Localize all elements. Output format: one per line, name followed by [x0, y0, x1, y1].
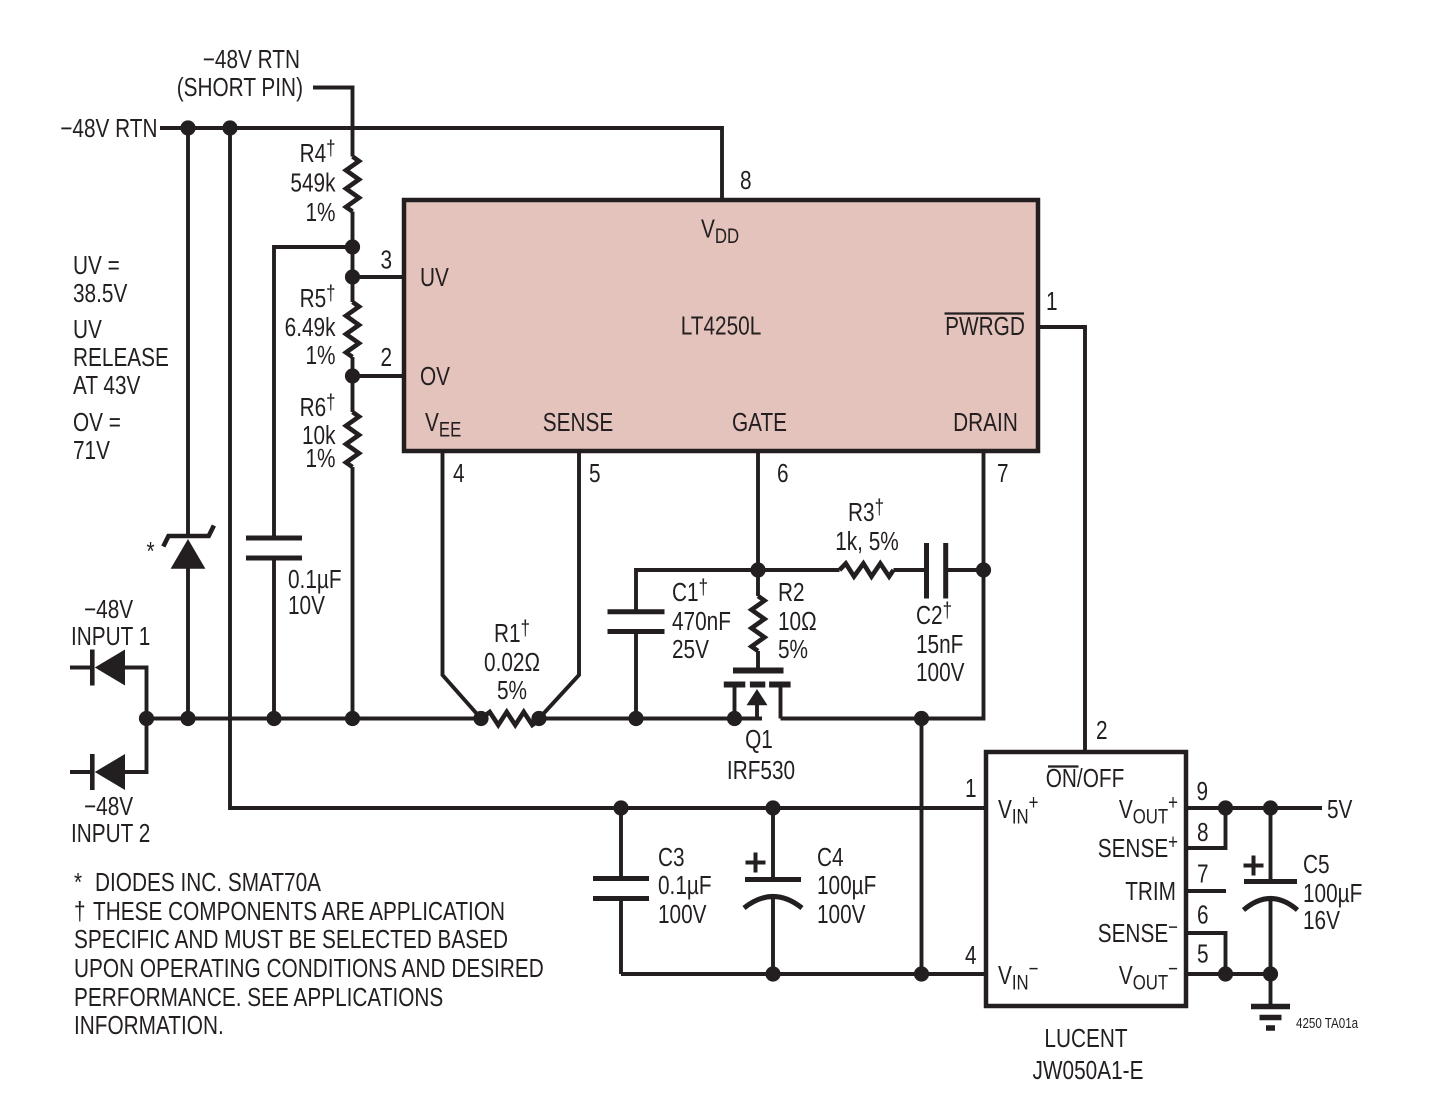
wire node to 0.1uF cap [274, 247, 353, 538]
svg-text:R2: R2 [778, 578, 805, 607]
svg-text:549k: 549k [290, 168, 335, 197]
capacitor C5 polarized [1244, 808, 1298, 974]
svg-text:5%: 5% [778, 635, 808, 664]
capacitor C4 value labels [817, 843, 876, 929]
resistor R4 value labels [290, 137, 335, 226]
resistor R1 sense [481, 712, 541, 725]
resistor R5 value labels [285, 282, 336, 369]
svg-text:PWRGD: PWRGD [945, 312, 1025, 341]
svg-text:3: 3 [381, 245, 393, 274]
resistor R6 [346, 412, 359, 467]
wire R4 bottom to node 3 [351, 212, 355, 278]
wire -48V RTN to VIN+ [230, 128, 986, 808]
wire bus R1 to Q1 source [539, 717, 762, 721]
svg-text:470nF: 470nF [672, 607, 731, 636]
module U2 Lucent body [986, 752, 1186, 1006]
IC U1 LT4250L body [404, 200, 1038, 451]
svg-text:71V: 71V [73, 436, 110, 465]
svg-text:SENSE−: SENSE− [1098, 916, 1178, 947]
svg-text:TRIM: TRIM [1125, 877, 1176, 906]
wire R5 to OV [351, 357, 355, 412]
svg-text:JW050A1-E: JW050A1-E [1033, 1056, 1144, 1085]
junction dot VIN+/C4 [765, 800, 780, 815]
transistor Q1 body arrow [747, 689, 768, 719]
footnote text block [74, 868, 544, 1040]
capacitor C5 plus sign [1244, 856, 1264, 876]
capacitor 0.1uF labels [288, 565, 342, 620]
junction dot VIN-/C4 [765, 966, 780, 981]
junction dot rail/input line [222, 120, 237, 135]
resistor R6 value labels [300, 391, 336, 472]
svg-text:SENSE+: SENSE+ [1098, 831, 1178, 862]
svg-text:5V: 5V [1327, 795, 1353, 824]
wire VOUT+ to 5V [1186, 806, 1322, 810]
junction dot input diodes [139, 711, 154, 726]
wire GATE pin 6 [756, 451, 760, 596]
wire R2 to Q1 gate [756, 651, 760, 668]
svg-text:100V: 100V [817, 900, 866, 929]
wire VIN- line [621, 972, 986, 976]
capacitor C2 value labels [916, 599, 965, 686]
svg-text:DRAIN: DRAIN [953, 408, 1018, 437]
zener diode D3 cathode bar [163, 526, 214, 547]
svg-text:PERFORMANCE. SEE APPLICATIONS: PERFORMANCE. SEE APPLICATIONS [74, 983, 443, 1012]
capacitor C5 value labels [1303, 850, 1362, 935]
junction dot bus/VIN- drop [914, 711, 929, 726]
capacitor C2 plates [927, 543, 946, 599]
junction dot VIN-/drain drop [914, 966, 929, 981]
svg-text:1: 1 [965, 774, 977, 803]
svg-text:7: 7 [997, 459, 1009, 488]
svg-text:100V: 100V [658, 900, 707, 929]
diode D1 input 1 [70, 650, 147, 719]
svg-text:9: 9 [1197, 777, 1209, 806]
svg-text:IRF530: IRF530 [727, 756, 795, 785]
transistor Q1 channel bars [724, 682, 791, 688]
junction dot OV node [345, 368, 360, 383]
wire OV pin 2 [353, 374, 405, 378]
junction dot R1 left [473, 711, 488, 726]
svg-text:UV: UV [73, 315, 102, 344]
svg-text:ON/OFF: ON/OFF [1046, 764, 1125, 793]
svg-text:−48V RTN: −48V RTN [203, 45, 300, 74]
net label -48V INPUT 2 [71, 792, 150, 848]
svg-text:GATE: GATE [732, 408, 787, 437]
wire -48V bus left segment [147, 717, 482, 721]
svg-text:†: † [74, 897, 86, 926]
capacitor C1 value labels [672, 576, 731, 663]
svg-text:UV =: UV = [73, 251, 120, 280]
resistor R1 value labels [484, 617, 540, 704]
svg-text:INPUT 2: INPUT 2 [71, 819, 150, 848]
wire -48V RTN rail to pin 8 [160, 128, 722, 200]
junction dot VIN+/C3 [613, 800, 628, 815]
note text UV OV thresholds [73, 251, 169, 465]
junction dot bus/zener [180, 711, 195, 726]
svg-text:5: 5 [1197, 939, 1209, 968]
svg-text:AT 43V: AT 43V [73, 371, 141, 400]
svg-text:4: 4 [453, 459, 465, 488]
zener diode D3 triangle [171, 539, 206, 569]
svg-text:LUCENT: LUCENT [1044, 1024, 1127, 1053]
wire drain bus down to VIN- [920, 719, 924, 975]
svg-text:Q1: Q1 [745, 725, 773, 754]
capacitor C3 value labels [658, 843, 712, 929]
svg-text:1%: 1% [305, 444, 335, 473]
svg-text:6.49k: 6.49k [285, 313, 336, 342]
module name labels [1033, 1024, 1144, 1085]
svg-text:6: 6 [777, 459, 789, 488]
module pin label ON/OFF with overline [1046, 764, 1125, 793]
transistor Q1 drain stub [779, 686, 783, 719]
svg-text:C3: C3 [658, 843, 685, 872]
svg-text:(SHORT PIN): (SHORT PIN) [177, 73, 303, 102]
svg-text:OV: OV [420, 362, 450, 391]
svg-text:8: 8 [740, 166, 752, 195]
wire short pin to R4 [313, 88, 353, 157]
svg-text:−48V: −48V [84, 792, 133, 821]
capacitor C3 [593, 808, 649, 974]
junction dot R4/R5 cap node [345, 239, 360, 254]
svg-text:0.02Ω: 0.02Ω [484, 648, 540, 677]
svg-text:0.1µF: 0.1µF [658, 871, 712, 900]
svg-text:38.5V: 38.5V [73, 279, 128, 308]
diode D2 input 2 [70, 719, 147, 791]
junction dot Q1 source [727, 711, 742, 726]
junction dot VOUT+/C5 [1263, 800, 1278, 815]
svg-text:INFORMATION.: INFORMATION. [74, 1011, 224, 1040]
wire 0.1uF to bus [272, 558, 276, 719]
svg-text:2: 2 [1096, 716, 1108, 745]
svg-text:6: 6 [1197, 900, 1209, 929]
svg-text:100µF: 100µF [817, 871, 876, 900]
svg-text:100µF: 100µF [1303, 879, 1362, 908]
junction dot rail/zener [180, 120, 195, 135]
svg-text:5: 5 [589, 459, 601, 488]
svg-text:RELEASE: RELEASE [73, 343, 169, 372]
junction dot drain/C2 [976, 562, 991, 577]
svg-text:0.1µF: 0.1µF [288, 565, 342, 594]
net label -48V RTN (SHORT PIN) [177, 45, 303, 102]
junction dot SENSE+/VOUT+ [1218, 800, 1233, 815]
capacitor C4 polarized [744, 808, 802, 974]
wire SENSE pin 5 [539, 451, 579, 719]
svg-text:4250 TA01a: 4250 TA01a [1296, 1015, 1359, 1032]
resistor R4 [346, 157, 359, 212]
svg-text:−48V RTN: −48V RTN [60, 114, 157, 143]
resistor R2 [752, 596, 765, 651]
transistor Q1 labels [727, 725, 795, 785]
svg-text:1: 1 [1046, 287, 1058, 316]
svg-text:THESE COMPONENTS ARE APPLICATI: THESE COMPONENTS ARE APPLICATION [93, 897, 505, 926]
svg-text:2: 2 [381, 343, 393, 372]
junction dot bus/0.1uF [266, 711, 281, 726]
ground symbol [1251, 974, 1290, 1028]
wire C2 to drain node [948, 568, 984, 572]
svg-text:C5: C5 [1303, 850, 1330, 879]
svg-text:4: 4 [965, 941, 977, 970]
wire TRIM stub [1186, 889, 1226, 893]
svg-text:100V: 100V [916, 658, 965, 687]
svg-text:SPECIFIC AND MUST BE SELECTED: SPECIFIC AND MUST BE SELECTED BASED [74, 925, 508, 954]
wire UV pin 3 [353, 275, 405, 279]
pin label PWRGD with overline [945, 312, 1025, 341]
svg-text:UPON OPERATING CONDITIONS AND: UPON OPERATING CONDITIONS AND DESIRED [74, 954, 544, 983]
wire SENSE+ jog to VOUT+ [1186, 808, 1226, 848]
wire C1 to bus [634, 632, 638, 719]
svg-text:8: 8 [1197, 818, 1209, 847]
wire R6 to bus [351, 467, 355, 719]
net label -48V INPUT 1 [71, 595, 150, 651]
wire VOUT- line [1186, 972, 1271, 976]
wire SENSE- jog to VOUT- [1186, 933, 1226, 974]
junction dot VOUT-/C5 [1263, 966, 1278, 981]
svg-text:10V: 10V [288, 591, 325, 620]
junction dot bus/R6 [345, 711, 360, 726]
junction dot SENSE-/VOUT- [1218, 966, 1233, 981]
svg-text:UV: UV [420, 263, 449, 292]
wire PWRGD pin 1 to ON/OFF pin 2 [1038, 327, 1085, 752]
capacitor C1 plates [608, 612, 665, 632]
svg-text:16V: 16V [1303, 906, 1340, 935]
svg-text:INPUT 1: INPUT 1 [71, 622, 150, 651]
junction dot bus/C1 [628, 711, 643, 726]
svg-text:1k, 5%: 1k, 5% [835, 527, 899, 556]
transistor Q1 source stub [733, 686, 737, 719]
svg-text:25V: 25V [672, 635, 709, 664]
wire VEE pin 4 [443, 451, 482, 719]
wire zener branch lower [186, 568, 190, 719]
junction dot R1 right [531, 711, 546, 726]
capacitor C4 plus sign [746, 853, 766, 873]
wire R3 to C2 [894, 568, 925, 572]
junction dot UV node [345, 269, 360, 284]
svg-text:10Ω: 10Ω [778, 607, 817, 636]
wire zener branch upper [186, 128, 190, 536]
svg-text:1%: 1% [305, 198, 335, 227]
wire gate node to R3 [758, 568, 840, 572]
svg-text:5%: 5% [497, 676, 527, 705]
svg-text:LT4250L: LT4250L [681, 311, 762, 340]
svg-text:*: * [74, 868, 82, 897]
capacitor C7 0.1uF wire upper done above; plates [246, 538, 302, 558]
svg-text:DIODES INC. SMAT70A: DIODES INC. SMAT70A [95, 868, 321, 897]
wire UV to R5 [351, 277, 355, 302]
resistor R3 value labels [835, 496, 899, 555]
svg-text:OV =: OV = [73, 408, 121, 437]
resistor R5 [346, 302, 359, 357]
resistor R2 value labels [778, 578, 817, 664]
svg-text:7: 7 [1197, 859, 1209, 888]
svg-text:15nF: 15nF [916, 630, 963, 659]
transistor Q1 gate bar [733, 668, 784, 674]
wire gate node to C1 [636, 570, 758, 612]
wire DRAIN pin 7 down [781, 451, 984, 719]
svg-text:*: * [147, 537, 155, 566]
svg-text:−48V: −48V [84, 595, 133, 624]
svg-text:C4: C4 [817, 843, 844, 872]
junction dot gate node [750, 562, 765, 577]
resistor R3 [840, 564, 894, 577]
svg-text:1%: 1% [305, 341, 335, 370]
svg-text:SENSE: SENSE [543, 408, 613, 437]
